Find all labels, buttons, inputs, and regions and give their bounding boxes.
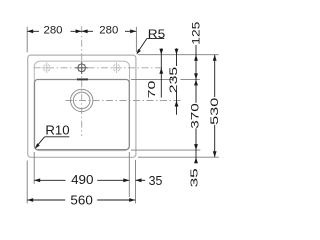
optional tap hole left — [42, 63, 53, 74]
dimension 35 side rim — [136, 179, 146, 181]
dimension 70 tap hole offset — [160, 48, 162, 97]
vertical centerline — [81, 26, 83, 136]
tap holes centerline — [34, 67, 163, 69]
center tap hole — [76, 62, 88, 74]
drain outer — [71, 89, 93, 111]
svg-text:70: 70 — [146, 80, 158, 98]
dimension 35 bottom rim — [194, 157, 198, 163]
sink rim inner line — [34, 61, 129, 151]
bowl top notch — [77, 78, 88, 80]
svg-text:280: 280 — [99, 24, 118, 36]
svg-text:280: 280 — [44, 24, 63, 36]
svg-text:35: 35 — [149, 174, 163, 188]
drain inner — [73, 92, 90, 109]
optional tap hole right — [111, 63, 122, 74]
dimension 280 right — [82, 29, 88, 33]
dimension 530 overall depth — [214, 55, 216, 158]
dimension 235 drain offset — [176, 48, 178, 115]
sink outer edge — [28, 55, 136, 157]
bowl — [35, 80, 130, 150]
dimension 490 bowl width — [34, 179, 129, 181]
svg-text:370: 370 — [190, 103, 202, 128]
svg-text:R10: R10 — [45, 122, 69, 137]
dimension 560 overall width — [27, 199, 135, 201]
drain centerline — [66, 100, 182, 102]
dimension 125 rim depth — [195, 45, 197, 157]
svg-text:490: 490 — [71, 173, 93, 187]
extension lines — [27, 27, 219, 204]
svg-text:560: 560 — [70, 194, 92, 205]
svg-text:125: 125 — [190, 22, 202, 45]
svg-text:35: 35 — [188, 168, 200, 187]
svg-text:530: 530 — [209, 98, 221, 125]
dimension 280 left — [27, 30, 136, 32]
svg-text:235: 235 — [168, 67, 180, 93]
dimension 370 bowl depth — [194, 79, 198, 85]
